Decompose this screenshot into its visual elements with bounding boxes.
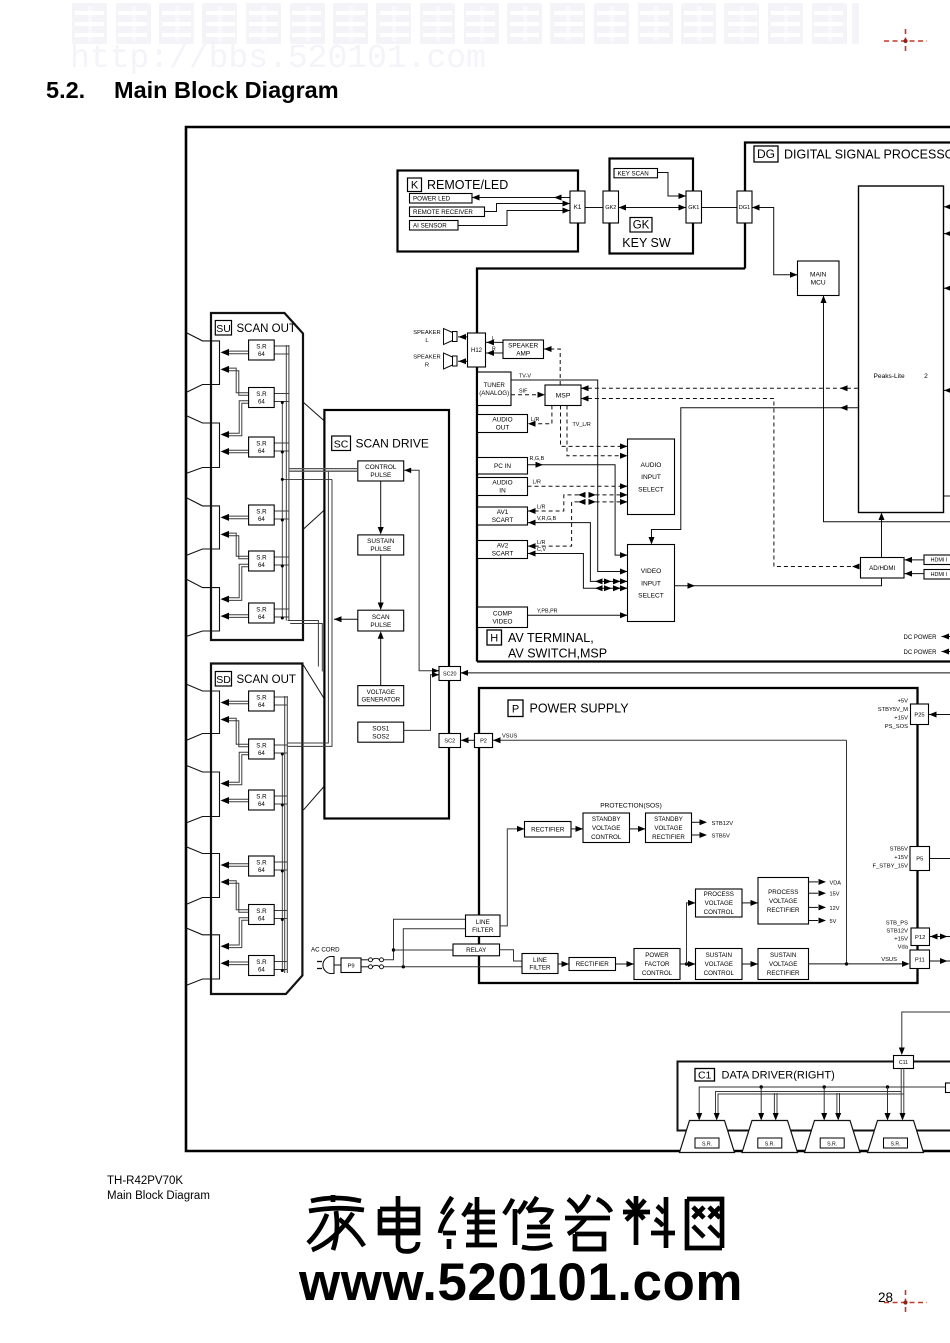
svg-text:L: L [492,336,495,342]
LINE FILTER lower box [522,954,558,974]
svg-text:COMP: COMP [493,611,512,618]
svg-text:+15V: +15V [894,855,908,861]
watermark top chinese line [72,3,859,44]
svg-text:STB5V: STB5V [712,834,730,840]
svg-text:Main Block Diagram: Main Block Diagram [107,1190,210,1202]
wire SU S.R6 to fan4 [227,614,249,616]
watermark calligraphy 家电维修资料网 [308,1195,364,1250]
svg-text:RELAY: RELAY [466,947,487,954]
SD junction wire with dots [281,754,283,971]
SC block SCAN DRIVE outline [324,410,449,819]
SCAN PULSE box [358,610,404,631]
connector P5 [910,847,930,871]
connector GK2 [603,191,619,223]
svg-text:STB12V: STB12V [712,821,734,827]
svg-text:FACTOR: FACTOR [645,961,671,968]
svg-text:SC: SC [334,438,349,450]
connector P2 [475,734,493,748]
wire rectifier to standby voltage control [571,828,583,830]
wire GK2 to GK1 bidirectional [619,207,687,209]
POWER FACTOR CONTROL box [634,949,680,980]
wire GK1 to DG1 [702,207,738,209]
svg-text:FILTER: FILTER [529,965,551,972]
wire VSUS vertical feed [846,740,848,964]
Peaks-Lite DSP box [859,186,944,513]
H label box [487,630,502,645]
wire SD S.R6 to fan4 [227,961,249,963]
RECTIFIER upper box [525,822,572,838]
wire SD S.R4 to fan3 [227,863,249,865]
svg-text:L/R: L/R [533,480,541,486]
wire H12 to speaker L [458,336,468,338]
ribbon edge SD to SC top [302,664,324,700]
svg-text:REMOTE/LED: REMOTE/LED [427,178,508,192]
wire Peaks-Lite RGB to VIDEO INPUT SELECT [652,408,859,541]
wire AD/HDMI up to Peaks-Lite [881,516,883,558]
svg-text:VOLTAGE: VOLTAGE [654,825,682,832]
svg-text:INPUT: INPUT [641,580,661,587]
svg-text:+15V: +15V [894,716,908,722]
svg-text:OUT: OUT [496,425,510,432]
svg-text:Peaks-Lite: Peaks-Lite [874,373,905,380]
K label box [408,178,422,192]
bus pair CONTROL PULSE to SU bus [289,468,358,470]
svg-text:K: K [411,179,419,191]
connector P11 [910,950,930,969]
main diagram outer border [186,127,950,1151]
SD panel connector fan 4 [186,928,220,986]
SU right bus pair [285,345,287,621]
COMP VIDEO box [478,607,528,628]
svg-text:VOLTAGE: VOLTAGE [769,961,797,968]
svg-text:PULSE: PULSE [370,472,391,479]
svg-text:MCU: MCU [811,280,826,287]
SU panel connector fan 4 [186,579,220,637]
svg-text:DG: DG [757,147,775,161]
SU block SCAN OUT outline [211,313,303,640]
svg-text:POWER SUPPLY: POWER SUPPLY [530,702,630,716]
svg-text:POWER LED: POWER LED [413,196,451,203]
DG label box [754,146,778,162]
svg-text:STB5V: STB5V [890,847,908,853]
svg-text:5.2.: 5.2. [46,77,85,103]
connector C11 [894,1056,914,1069]
svg-text:SPEAKER: SPEAKER [413,355,440,361]
wire AI SENSOR to K1 [458,211,570,226]
wire SU S.R2 to fan1 [227,368,249,393]
svg-text:SU: SU [216,323,231,335]
dashed wire AV2 L/R audio [528,502,628,546]
data driver S.R. trapezoid 2 [742,1121,798,1153]
SU S.R 64 box 1 [249,340,275,360]
connector DG1 [737,191,752,223]
connector P12 [911,928,930,946]
wire SU S.R5 to fan4 [227,564,249,598]
STANDBY VOLTAGE CONTROL box [583,813,630,843]
SU panel connector fan 2 [186,416,220,474]
svg-text:SCAN DRIVE: SCAN DRIVE [356,437,429,451]
svg-text:2: 2 [924,373,928,380]
svg-text:DG1: DG1 [739,205,751,211]
svg-text:KEY SW: KEY SW [622,236,671,250]
svg-text:SOS2: SOS2 [372,733,389,740]
SU label box [215,321,231,336]
SPEAKER AMP box [503,340,544,359]
svg-text:64: 64 [258,614,265,621]
wire feedback to CONTROL PULSE and SC20 [404,470,439,670]
svg-text:REMOTE RECEIVER: REMOTE RECEIVER [413,209,473,216]
AI SENSOR box [410,221,459,231]
svg-text:P25: P25 [914,712,924,718]
dashed wire AUDIO IN to audio select [528,485,628,487]
svg-text:MSP: MSP [556,393,571,400]
svg-text:VSUS: VSUS [502,734,518,740]
SD panel connector fan 2 [186,765,220,823]
wire SUSTAIN PULSE to SCAN PULSE [380,555,382,607]
SD right bus pair [284,696,286,973]
svg-text:SCAN: SCAN [372,614,390,621]
speaker icon L [444,329,453,345]
wire SU S.R4 to fan3 [227,515,249,517]
svg-text:+5V: +5V [898,699,909,705]
CONTROL PULSE box [358,461,404,481]
svg-text:http://bbs.520101.com: http://bbs.520101.com [70,40,486,77]
H block border (AV terminal) [477,269,745,662]
svg-text:SPEAKER: SPEAKER [508,343,539,350]
svg-text:SUSTAIN: SUSTAIN [367,538,395,545]
wire SPEAKER AMP L to H12 [486,341,503,343]
C1 label box [695,1069,715,1082]
SOS1 SOS2 box [358,722,404,742]
svg-text:VSUS: VSUS [881,957,897,963]
wire AV2 CV video [528,554,628,589]
wire sustain rectifier VSUS to P11 [809,963,904,965]
AUDIO OUT box [478,415,528,433]
svg-text:28: 28 [878,1290,893,1305]
TUNER ANALOG box [478,372,512,406]
svg-text:S.R: S.R [256,793,267,800]
SC label box [332,436,351,451]
svg-text:15V: 15V [830,892,840,898]
svg-text:PROCESS: PROCESS [704,891,734,898]
SU S.R 64 box 5 [249,551,275,571]
SD S.R 64 box 4 [249,856,275,876]
wire line filter upper to rectifier upper [500,829,524,926]
bus pair SU bottom to SD top [288,621,319,667]
svg-text:AV1: AV1 [497,509,509,516]
bus pair SC down to SD [288,471,329,743]
SD S.R box stubs to bus [274,696,287,698]
svg-text:64: 64 [258,562,265,569]
AV2 SCART box [478,541,528,559]
svg-text:GK2: GK2 [605,205,616,211]
svg-text:HDMI I: HDMI I [931,558,948,564]
connector P2 redraw [475,734,493,748]
svg-text:P: P [512,704,519,716]
svg-text:S.R: S.R [256,959,267,966]
SU S.R 64 box 4 [249,505,275,525]
dashed wire MSP to SPEAKER AMP [544,349,560,385]
SD S.R 64 box 2 [249,739,275,759]
svg-text:64: 64 [258,399,265,406]
SD block SCAN OUT outline [211,664,302,995]
SU junction wire with dots [281,403,283,619]
svg-text:S.R: S.R [256,440,267,447]
svg-text:LINE: LINE [533,957,547,964]
svg-text:SIF: SIF [519,388,528,394]
svg-text:AMP: AMP [516,351,530,358]
svg-text:L/R: L/R [537,505,545,511]
svg-text:STB_PS: STB_PS [886,921,908,927]
REMOTE RECEIVER box [410,207,485,217]
svg-text:Main Block Diagram: Main Block Diagram [114,77,339,103]
wire REMOTE RECEIVER to K1 [485,204,571,212]
SU S.R 64 box 3 [249,437,275,457]
wire P11 stub to page edge [930,960,950,962]
svg-text:CONTROL: CONTROL [704,970,735,977]
svg-text:C1: C1 [698,1069,712,1081]
svg-text:VOLTAGE: VOLTAGE [769,898,797,905]
svg-text:PROCESS: PROCESS [768,889,798,896]
wire SD S.R5 to fan4 [227,918,249,945]
SD label box [215,672,231,687]
wire sustain control to sustain rectifier [742,963,758,965]
GK label box [630,218,652,233]
svg-text:64: 64 [258,967,265,974]
connector SC2 [439,734,461,748]
wire line filter lower to rectifier lower [558,963,569,965]
SD S.R 64 box 3 [249,790,275,810]
SU panel connector fan 3 [186,498,220,556]
svg-text:VOLTAGE: VOLTAGE [592,825,620,832]
SUSTAIN VOLTAGE CONTROL box [696,949,743,980]
svg-text:SCART: SCART [492,551,514,558]
svg-text:(ANALOG): (ANALOG) [479,390,509,397]
wire DG1 to MAIN MCU [752,208,798,275]
LINE FILTER upper box [466,915,501,937]
wire SOS1 SOS2 to SC20 [404,675,439,731]
wire CONTROL PULSE to SUSTAIN PULSE [380,481,382,531]
KEY SCAN box [614,169,658,178]
svg-text:64: 64 [258,351,265,358]
svg-text:S.R: S.R [256,694,267,701]
edge box right of bus [946,1083,950,1093]
wire SPEAKER AMP R to H12 [486,352,503,354]
svg-text:S.R: S.R [256,508,267,515]
svg-text:VIDEO: VIDEO [641,568,662,575]
svg-text:VOLTAGE: VOLTAGE [367,689,395,696]
svg-text:SELECT: SELECT [638,593,664,600]
connector K1 [570,191,585,223]
svg-text:SUSTAIN: SUSTAIN [770,952,796,959]
wire POWER LED to K1 [472,197,570,199]
svg-text:SCAN OUT: SCAN OUT [237,674,296,686]
svg-text:+15V: +15V [894,937,908,943]
svg-text:MAIN: MAIN [810,271,827,278]
svg-text:S.R: S.R [256,391,267,398]
wire SD S.R5 to fan3 [227,881,249,910]
SU panel connector fan 1 [186,333,220,393]
svg-text:P12: P12 [915,935,925,941]
svg-text:AI SENSOR: AI SENSOR [413,223,447,230]
svg-text:SPEAKER: SPEAKER [413,330,440,336]
SU S.R 64 box 6 [249,603,275,623]
SUSTAIN VOLTAGE RECTIFIER box [758,949,809,980]
MAIN MCU box [798,261,840,296]
P label box [508,700,523,717]
svg-text:S.R: S.R [256,343,267,350]
svg-text:AV2: AV2 [497,543,509,550]
STANDBY VOLTAGE RECTIFIER box [646,813,692,843]
SU S.R box stubs to bus [274,345,289,347]
svg-text:R: R [425,363,429,369]
svg-text:12V: 12V [830,906,840,912]
svg-text:64: 64 [258,750,265,757]
svg-text:STANDBY: STANDBY [592,816,621,823]
svg-text:64: 64 [258,916,265,923]
svg-text:VOLTAGE: VOLTAGE [705,961,733,968]
wire AV1 VRGB video [528,523,628,582]
SD panel connector fan 1 [186,684,220,741]
wire standby control to standby rectifier [630,828,646,830]
P block POWER SUPPLY outline [479,688,918,983]
K block REMOTE/LED outline [398,171,579,252]
svg-text:POWER: POWER [645,952,669,959]
wire SU S.R2 to fan2 [227,401,249,434]
wire K1 to GK2 [585,207,603,209]
svg-text:AV TERMINAL,: AV TERMINAL, [508,631,594,645]
wire from page edge down into C11 [902,1012,950,1052]
svg-text:TV_L/R: TV_L/R [573,422,591,428]
GK block KEY SW outline [610,159,694,254]
PC IN box [478,458,528,475]
svg-text:RECTIFIER: RECTIFIER [576,961,610,968]
DG block border (digital signal processor) [745,143,950,269]
dashed wire MSP to AUDIO OUT [528,406,552,424]
svg-text:STBY5V_M: STBY5V_M [878,707,908,713]
svg-text:CONTROL: CONTROL [704,909,735,916]
svg-text:STANDBY: STANDBY [654,816,683,823]
svg-text:SCART: SCART [492,517,514,524]
POWER LED box [410,194,473,204]
HDMI IN 2 box [924,570,950,580]
svg-text:K1: K1 [574,204,582,211]
svg-text:FILTER: FILTER [472,927,494,934]
SU S.R 64 box 2 [249,388,275,408]
svg-text:LINE: LINE [476,919,490,926]
connector P9 [341,958,361,973]
svg-text:HDMI I: HDMI I [931,572,948,578]
SD panel connector fan 3 [186,847,220,905]
svg-text:C11: C11 [899,1060,908,1066]
registration crosshair bottom right [884,1290,927,1315]
svg-text:R,G,B: R,G,B [530,456,545,462]
AD/HDMI box [861,558,905,579]
wire TV-V tuner to video select [511,380,628,572]
wire P5 stub to page edge [930,858,950,860]
wire SCAN PULSE output left [334,618,358,620]
wire VIDEO INPUT SELECT to AD/HDMI [675,578,882,586]
HDMI IN 1 box [924,555,950,565]
svg-text:S.R: S.R [256,908,267,915]
wire MAIN MCU down to page edge [824,296,950,522]
svg-text:INPUT: INPUT [641,474,661,481]
H block bottom border [477,660,950,662]
svg-text:VIDEO: VIDEO [493,619,513,626]
wire SD S.R2 to fan1 [227,718,249,744]
svg-text:R: R [492,347,496,353]
svg-text:AUDIO: AUDIO [492,417,512,424]
AC plug symbol [323,957,334,974]
svg-text:Vda: Vda [898,945,909,951]
wire VSUS from power supply to P2 [493,739,847,741]
wire AC top line to line filter and relay [384,919,466,960]
svg-text:PULSE: PULSE [370,546,391,553]
wire HDMI1 to AD/HDMI [904,559,924,561]
connector GK1 [686,191,702,223]
STB12V output arrow [692,821,701,823]
SD S.R 64 box 6 [249,956,275,976]
wire P25 stub from page edge [929,714,950,716]
wire SU S.R1 to fan1 [227,350,249,352]
wire SU junction line to SC bus [282,478,332,480]
svg-text:F_STBY_15V: F_STBY_15V [873,864,909,870]
svg-text:PULSE: PULSE [370,622,391,629]
svg-text:H12: H12 [471,348,483,354]
wire P12 bidirectional stub [930,936,950,938]
svg-text:GENERATOR: GENERATOR [361,697,400,704]
PROCESS VOLTAGE RECTIFIER box [758,878,809,925]
dashed wire AV1 L/R audio [528,495,628,511]
Peaks-Lite right edge input stubs [944,206,950,208]
svg-text:S.R.: S.R. [890,1142,900,1148]
svg-text:AC CORD: AC CORD [311,947,340,954]
wire KEY SCAN to GK1 [658,173,687,197]
AV1 SCART box [478,507,528,525]
svg-text:5V: 5V [830,919,837,925]
data driver S.R. trapezoid 1 [680,1121,735,1153]
svg-text:64: 64 [258,702,265,709]
svg-text:PC IN: PC IN [494,463,511,470]
C1 block DATA DRIVER outline [678,1062,950,1131]
svg-text:AUDIO: AUDIO [641,462,662,469]
connector SC20 [439,667,461,681]
dashed wire AD/HDMI to MSP via loop [581,399,861,567]
DC POWER stubs at page edge [942,636,950,638]
svg-text:SELECT: SELECT [638,486,664,493]
svg-text:AV SWITCH,MSP: AV SWITCH,MSP [508,647,607,661]
svg-text:S.R: S.R [256,742,267,749]
wire process control to process rectifier [742,902,758,904]
ribbon edge SD to SC bottom [304,786,325,810]
RECTIFIER lower box [569,958,616,971]
svg-text:DC POWER: DC POWER [904,650,938,656]
wire HDMI2 to AD/HDMI [904,573,924,575]
connector H12 [468,333,486,367]
PROCESS VOLTAGE CONTROL box [696,889,743,917]
svg-text:TH-R42PV70K: TH-R42PV70K [107,1175,183,1187]
svg-text:S.R.: S.R. [827,1142,837,1148]
wire RELAY to line filter lower [500,950,523,961]
connector P25 [911,704,929,725]
svg-text:VOLTAGE: VOLTAGE [705,900,733,907]
svg-text:SOS1: SOS1 [372,725,389,732]
svg-text:DATA DRIVER(RIGHT): DATA DRIVER(RIGHT) [722,1070,835,1082]
svg-text:S.R.: S.R. [765,1142,775,1148]
svg-text:PROTECTION(SOS): PROTECTION(SOS) [600,803,662,810]
SD S.R 64 box 5 [249,905,275,925]
ribbon edge SU to SC bottom [303,510,324,530]
